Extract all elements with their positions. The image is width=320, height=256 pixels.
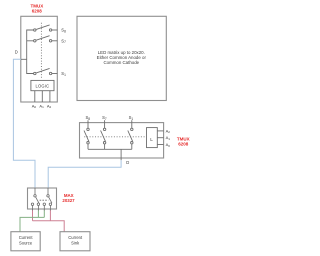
pin A0 of U1 <box>34 91 36 102</box>
svg-text:6208: 6208 <box>178 142 189 147</box>
wire green to current source <box>20 210 44 231</box>
svg-text:LOGIC: LOGIC <box>36 83 50 88</box>
switch U3 pole 2 <box>43 188 52 209</box>
switch U3 pole 1 <box>31 188 39 209</box>
svg-text:Current: Current <box>68 235 83 240</box>
svg-text:D: D <box>15 50 18 55</box>
svg-text:Sink: Sink <box>71 241 80 246</box>
svg-text:A2: A2 <box>166 128 171 134</box>
switch S8 in U2 <box>84 128 89 149</box>
LOGIC block of U1 <box>31 80 54 90</box>
svg-text:20327: 20327 <box>62 198 75 203</box>
svg-text:L: L <box>150 137 153 142</box>
svg-text:A1: A1 <box>39 103 44 109</box>
pin stub S1 U2 <box>131 120 133 128</box>
pin stubs U3 bottom <box>33 209 51 211</box>
pin stub S8 U2 <box>87 120 89 128</box>
pin A2 of U2 <box>157 130 163 132</box>
op IC U1 TMUX6208 outline <box>21 16 58 102</box>
svg-text:A0: A0 <box>166 142 171 148</box>
dotted control line U2 <box>84 136 146 138</box>
pin A1 of U2 <box>157 137 163 139</box>
svg-text:A1: A1 <box>166 135 171 141</box>
svg-text:S8: S8 <box>61 28 66 34</box>
pin A1 of U1 <box>41 91 43 102</box>
LOGIC block L of U2 <box>147 128 158 148</box>
pin A0 of U2 <box>157 144 163 146</box>
switch S7 in U2 <box>101 128 106 149</box>
pin A2 of U1 <box>49 91 51 102</box>
svg-text:Source: Source <box>19 241 33 246</box>
label U3 part number MAX 20327 <box>62 193 75 203</box>
dotted control line U1 <box>40 23 42 78</box>
svg-text:Common Cathode: Common Cathode <box>103 60 139 65</box>
svg-text:S7: S7 <box>102 115 107 121</box>
wire red to current sink <box>33 210 65 231</box>
LED matrix block <box>77 16 166 100</box>
label U1 part number TMUX 6208 <box>31 4 44 14</box>
pin stub S7 U2 <box>104 120 106 128</box>
svg-text:S8: S8 <box>86 115 91 121</box>
svg-text:A2: A2 <box>47 103 52 109</box>
wire blue D net from U2 to MAX switch <box>48 160 121 188</box>
svg-text:Current: Current <box>19 235 34 240</box>
svg-text:D: D <box>126 160 129 165</box>
block Current Sink <box>60 232 90 251</box>
svg-text:A0: A0 <box>32 103 37 109</box>
pin labels A0 A1 A2 (U1 bottom) <box>32 103 52 109</box>
switch S1 in U1 (row 3) <box>34 68 58 74</box>
wire U1 common bus (D net) <box>21 30 34 74</box>
LED matrix description text <box>97 50 147 65</box>
gang link dashed between U3 poles <box>40 199 49 201</box>
IC U2 TMUX6208 outline <box>80 123 164 158</box>
wire blue D net from U1 to MAX switch <box>13 59 35 188</box>
switch S7 in U1 (row 2) <box>34 36 58 42</box>
svg-text:S1: S1 <box>129 115 134 121</box>
svg-text:S1: S1 <box>61 71 66 77</box>
pin labels A2 A1 A0 (U2 right) <box>166 128 171 147</box>
svg-text:S7: S7 <box>61 38 66 44</box>
block Current Source <box>11 232 40 251</box>
switch S8 in U1 (row 1) <box>34 25 58 31</box>
switch S1 in U2 <box>128 128 133 149</box>
wire U2 common bus <box>88 149 132 160</box>
svg-text:6208: 6208 <box>32 9 43 14</box>
IC U3 MAX analog switch outline <box>28 188 57 209</box>
label U2 part number TMUX 6208 <box>177 137 190 147</box>
